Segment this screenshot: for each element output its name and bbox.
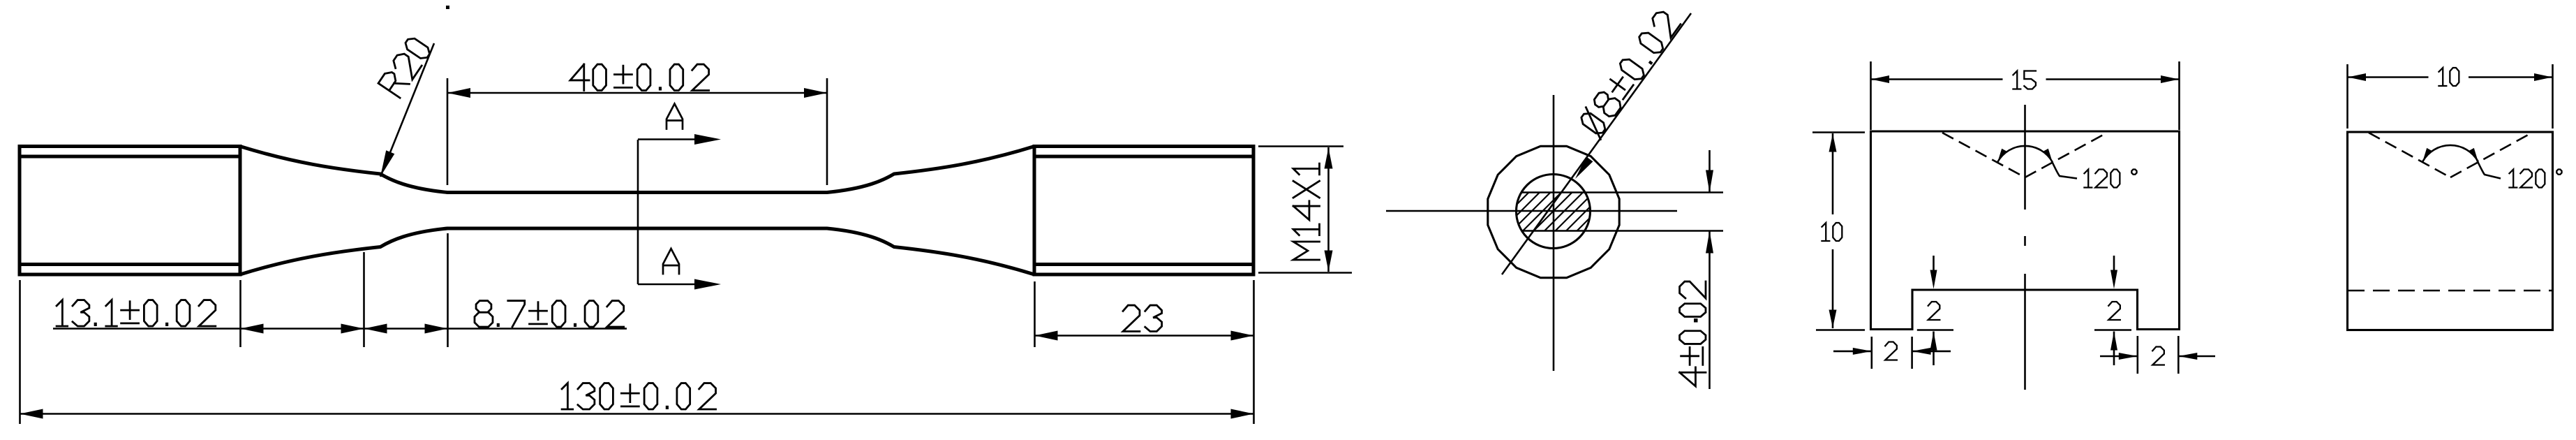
left grip thread line bottom <box>20 263 240 266</box>
dim 10 extensions <box>1812 131 1865 133</box>
left grip thread line top <box>20 155 240 159</box>
dim 130 line <box>20 413 1254 415</box>
centerline vertical <box>1553 95 1555 371</box>
dim 40 extension left <box>447 78 449 185</box>
dim text 8.7±0.02 <box>475 301 624 327</box>
dim text 120° (side) <box>2509 170 2561 188</box>
recess depth dim right <box>2113 256 2115 278</box>
dim 10 line <box>1832 133 1834 214</box>
dim text 10 (side) <box>2439 68 2459 86</box>
dim text 23 <box>1123 305 1162 331</box>
foot bottom ext right <box>2094 329 2131 331</box>
dim text 120° (v-block) <box>2084 170 2136 188</box>
leader 120 (side) <box>2477 160 2501 179</box>
section line A-A <box>637 140 639 284</box>
dim 23 line <box>1035 335 1254 337</box>
right grip thread line top <box>1034 155 1253 159</box>
v-groove dashed right (side) <box>2450 133 2532 177</box>
foot bottom ext left <box>1917 329 1953 331</box>
dashed bottom line (side) <box>2348 290 2552 292</box>
dim 13.1/8.7 line <box>53 328 627 330</box>
dim 10 line (side) <box>2348 76 2429 78</box>
v-block outline <box>1871 131 2180 330</box>
specimen bottom profile <box>240 228 1034 274</box>
right grip thread line bottom <box>1034 263 1253 266</box>
dim text 4±0.02 <box>1680 367 1706 386</box>
dim text Ø8±0.02 <box>1576 8 1683 139</box>
dim text 40±0.02 <box>570 64 709 90</box>
leader 120 <box>2052 161 2077 179</box>
centerline v-block <box>2024 105 2026 210</box>
dim 15 extensions <box>1870 61 1872 130</box>
section arrow top <box>638 138 701 140</box>
inner circle (gauge dia 8) <box>1517 175 1591 249</box>
section arrow bottom <box>638 284 701 286</box>
angle arc 120 <box>1997 146 2053 162</box>
dim M14X1 line <box>1327 147 1330 272</box>
dim 40 extension right <box>826 78 828 185</box>
dim 23 extension left <box>1034 281 1036 347</box>
label A top <box>667 104 683 129</box>
dim text 15 <box>2013 71 2035 89</box>
left grip rectangle <box>20 147 240 275</box>
v-groove dashed right <box>2025 133 2108 177</box>
dim M14X1 extension top <box>1258 145 1343 147</box>
dim M14X1 extension bottom <box>1258 272 1352 274</box>
hatching <box>1517 193 1528 205</box>
stray dot mark <box>446 6 449 9</box>
flat top line / ext <box>1521 191 1723 193</box>
v-groove dashed left <box>1942 133 2025 177</box>
angle arc 120 (side) <box>2422 145 2478 161</box>
recess depth dim left <box>1933 256 1935 278</box>
right grip rectangle <box>1034 147 1253 275</box>
dim 4 line upper <box>1708 150 1711 193</box>
dim 4 line lower <box>1708 231 1711 390</box>
foot width dim right <box>2137 336 2139 374</box>
dim 130 extension right <box>1253 280 1255 424</box>
dim text 10 (v-block) <box>1822 223 1842 241</box>
dim text R20 <box>378 36 432 98</box>
side block outline <box>2348 132 2553 330</box>
flat bottom line / ext <box>1521 230 1723 232</box>
dim 15 line <box>1871 78 2003 80</box>
R20 leader <box>380 43 434 177</box>
dim text 130±0.02 <box>562 383 715 409</box>
dim text M14X1 <box>1293 163 1319 260</box>
dim text 13.1±0.02 <box>57 300 216 326</box>
label A bottom <box>663 249 679 274</box>
dim 40 line <box>447 92 827 94</box>
foot width dim left <box>1871 337 1873 369</box>
leader Ø8 <box>1502 13 1691 274</box>
dim 10 extensions (side) <box>2346 64 2348 129</box>
v-groove dashed left (side) <box>2369 133 2450 177</box>
centerline horizontal <box>1386 210 1677 212</box>
specimen top profile <box>240 147 1034 193</box>
outer circle (grip dia) <box>1488 146 1619 277</box>
dim 13.1/8.7 extension lines <box>19 280 21 424</box>
